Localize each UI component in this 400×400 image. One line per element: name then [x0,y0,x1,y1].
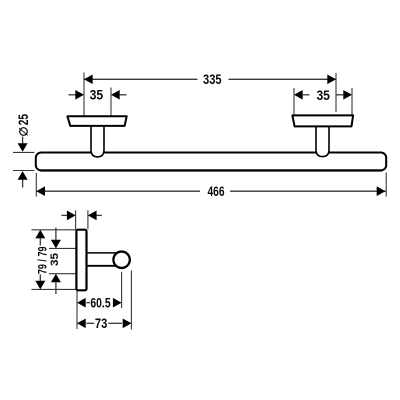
svg-text:60.5: 60.5 [90,296,111,311]
svg-text:335: 335 [203,72,222,87]
svg-text:79 / 79: 79 / 79 [36,246,50,274]
svg-text:25: 25 [15,114,31,125]
svg-text:35: 35 [90,88,104,103]
svg-text:∅: ∅ [18,126,30,136]
svg-text:73: 73 [95,316,108,331]
svg-text:35: 35 [49,253,61,266]
svg-text:466: 466 [208,184,225,199]
svg-text:35: 35 [316,88,330,103]
